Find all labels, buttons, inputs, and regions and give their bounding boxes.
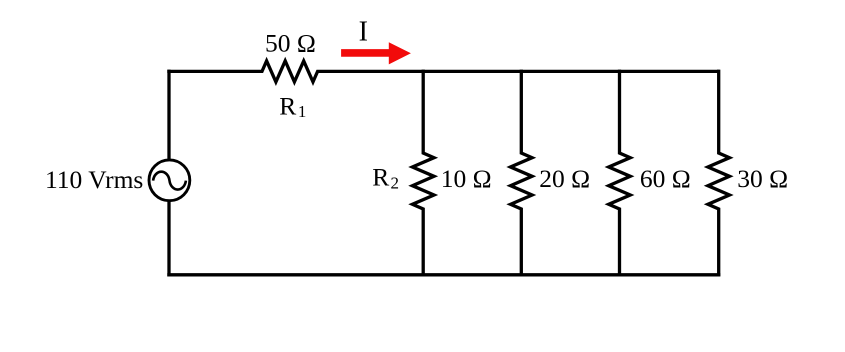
svg-text:60 Ω: 60 Ω bbox=[640, 164, 691, 193]
svg-text:30 Ω: 30 Ω bbox=[737, 164, 788, 193]
svg-text:R: R bbox=[279, 91, 296, 120]
svg-text:10 Ω: 10 Ω bbox=[441, 164, 492, 193]
svg-text:2: 2 bbox=[391, 173, 400, 192]
svg-text:I: I bbox=[359, 17, 368, 48]
svg-text:20 Ω: 20 Ω bbox=[539, 164, 590, 193]
svg-text:R: R bbox=[372, 163, 389, 192]
svg-text:110 Vrms: 110 Vrms bbox=[45, 165, 143, 194]
svg-text:50 Ω: 50 Ω bbox=[265, 28, 316, 57]
svg-text:1: 1 bbox=[298, 102, 307, 121]
